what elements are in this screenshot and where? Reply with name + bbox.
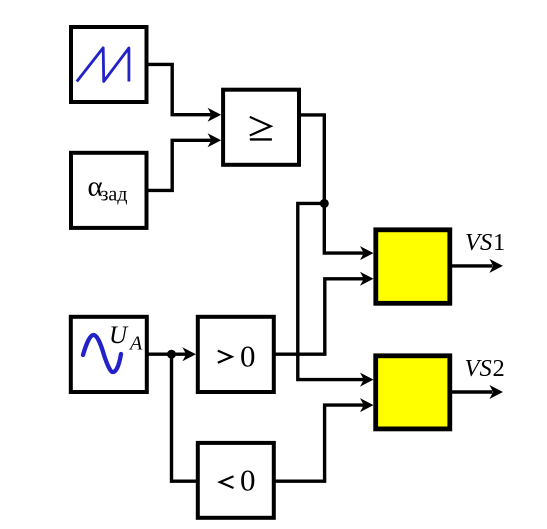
alpha_zad setpoint box [71,153,147,228]
wire comparator output to VS1 former input 1 [298,115,365,253]
arrowhead into comparator input 1 [208,108,222,122]
arrowhead into VS2 former input 2 [360,398,374,412]
svg-text:0: 0 [240,338,256,373]
pulse former box VS2 (yellow) [376,356,450,429]
arrowhead VS2 output [489,385,503,399]
label >= underline part [250,138,272,140]
mains voltage source box Ua [71,317,147,392]
svg-text:2: 2 [493,355,505,382]
sine waveform [83,335,121,372]
svg-text:VS: VS [465,229,492,256]
arrowhead into VS2 former input 1 [360,373,374,387]
wire > 0 output to VS1 former input 2 [273,279,365,354]
positive half-wave detector box > 0 [198,317,274,392]
arrowhead into > 0 input [182,347,196,361]
svg-text:A: A [128,333,143,355]
sawtooth waveform [77,48,129,82]
wire Ua source to > 0 input [146,353,187,356]
negative half-wave detector box < 0 [198,443,274,518]
svg-text:U: U [109,322,129,349]
label < part [220,476,234,488]
svg-text:зад: зад [101,184,128,206]
svg-text:0: 0 [240,462,256,497]
comparator >= box U1 [223,90,299,165]
wire sawtooth to comparator input 1 [146,64,213,114]
svg-text:VS: VS [465,355,492,382]
sawtooth generator box G1 [71,27,147,102]
arrowhead into VS1 former input 1 [360,246,374,260]
label > part [218,351,232,363]
junction dot on comparator output [320,199,329,208]
arrowhead VS1 output [489,259,503,273]
wire junction to VS2 former input 1 [298,203,365,379]
svg-text:1: 1 [493,229,505,256]
junction dot on Ua output [167,350,176,359]
wire < 0 output to VS2 former input 2 [273,405,365,481]
wire VS1 former output [450,264,493,267]
wire VS2 former output [450,390,493,393]
pulse former box VS1 (yellow) [376,230,450,303]
arrowhead into VS1 former input 2 [360,272,374,286]
wire junction down to < 0 input [172,354,200,481]
arrowhead into comparator input 2 [208,133,222,147]
label >= greater-than part [250,117,271,136]
wire alpha_zad to comparator input 2 [146,140,213,190]
